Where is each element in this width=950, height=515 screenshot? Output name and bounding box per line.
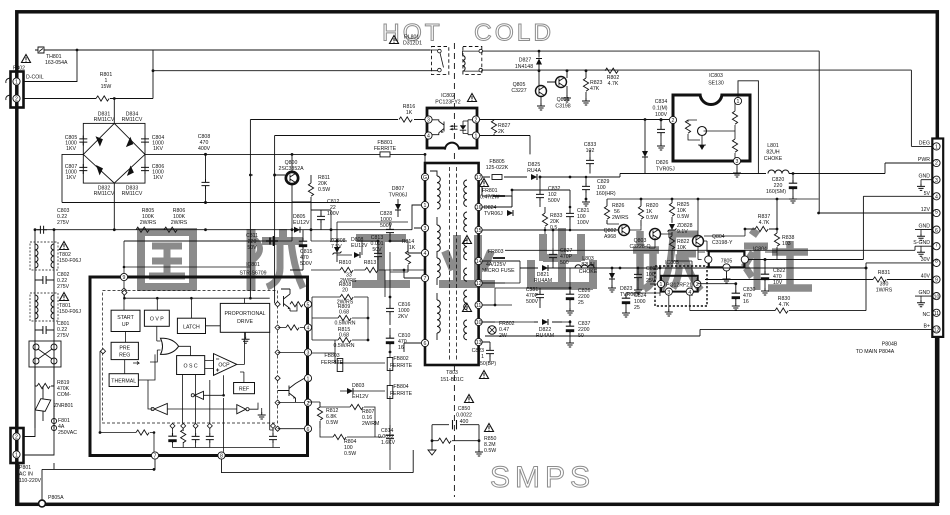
- svg-text:PRE: PRE: [119, 346, 130, 352]
- resistor R831: [873, 270, 893, 294]
- choke L803: [560, 256, 866, 275]
- svg-text:O V P: O V P: [150, 317, 164, 323]
- wire pin1 riser: [24, 50, 78, 82]
- svg-text:C834: C834: [655, 99, 668, 105]
- svg-text:1: 1: [660, 282, 663, 288]
- svg-text:16: 16: [398, 345, 404, 351]
- svg-text:160(HR): 160(HR): [596, 191, 616, 197]
- wire opto pin4 line: [275, 135, 425, 137]
- svg-text:6: 6: [935, 228, 938, 234]
- svg-text:14: 14: [476, 259, 482, 265]
- transformer T801 line filter: [30, 293, 81, 322]
- svg-text:RM11CV: RM11CV: [122, 191, 143, 197]
- svg-text:500V: 500V: [548, 198, 561, 204]
- capacitor C826: [566, 288, 591, 315]
- svg-text:1K: 1K: [406, 110, 413, 116]
- right area long wires: [485, 196, 933, 336]
- T803 pin 6: [421, 339, 428, 347]
- svg-text:FR801: FR801: [482, 188, 498, 194]
- capacitor C803: [37, 208, 70, 234]
- svg-text:FERRITE: FERRITE: [390, 363, 413, 369]
- svg-text:400V: 400V: [198, 146, 211, 152]
- svg-text:FERRITE: FERRITE: [374, 146, 397, 152]
- svg-text:2: 2: [15, 435, 18, 441]
- wire bridge input riser: [114, 71, 153, 124]
- svg-text:5: 5: [307, 302, 310, 308]
- svg-text:100V: 100V: [577, 220, 590, 226]
- node diamonds on dashed edge: [100, 290, 280, 431]
- svg-text:9: 9: [123, 275, 126, 281]
- internal bus and wires IC801: [124, 291, 273, 452]
- resistor R827: [491, 120, 510, 136]
- resistor R815: [312, 327, 368, 349]
- svg-text:9: 9: [935, 278, 938, 284]
- right thick bus bar: [935, 337, 940, 503]
- T803 pin 15: [475, 226, 482, 234]
- svg-text:275V: 275V: [57, 333, 70, 339]
- capacitor C814: [378, 425, 396, 450]
- svg-text:2KV: 2KV: [398, 314, 408, 320]
- svg-text:1.6KV: 1.6KV: [381, 440, 396, 446]
- watermark char SHE: [744, 230, 812, 290]
- resistor into pin4: [278, 325, 305, 330]
- IC803 box: [673, 73, 750, 161]
- svg-text:8: 8: [935, 259, 938, 265]
- T803 pin 1: [421, 201, 428, 209]
- svg-text:50(BP): 50(BP): [480, 361, 496, 367]
- svg-text:OCP: OCP: [218, 363, 230, 369]
- svg-text:CHOKE: CHOKE: [764, 156, 783, 162]
- svg-text:163-054A: 163-054A: [45, 60, 68, 66]
- svg-text:PWR: PWR: [918, 157, 930, 163]
- svg-text:500: 500: [560, 260, 569, 266]
- svg-text:102: 102: [586, 148, 595, 154]
- svg-text:1N4148: 1N4148: [515, 64, 533, 70]
- T803 pin 12: [475, 279, 482, 287]
- svg-text:RM11CV: RM11CV: [122, 117, 143, 123]
- svg-text:10V: 10V: [773, 280, 783, 286]
- svg-text:1: 1: [307, 376, 310, 382]
- diode D803: [347, 383, 369, 400]
- watermark char CHU: [531, 228, 593, 289]
- svg-text:400: 400: [460, 419, 469, 425]
- block PROPORTIONAL DRIVE: [220, 303, 269, 332]
- svg-text:7: 7: [154, 454, 157, 460]
- resistor R801: [96, 50, 153, 101]
- capacitor C816: [386, 297, 411, 325]
- svg-text:4.7K: 4.7K: [608, 81, 619, 87]
- resistor R810: [339, 260, 357, 284]
- capacitor C829: [582, 177, 616, 206]
- ground triangle bottom left: [428, 441, 436, 455]
- pin 8: [218, 452, 225, 460]
- pin 11 NC: [923, 309, 941, 318]
- diode D807: [389, 186, 408, 217]
- ferrite FB805: [482, 159, 527, 180]
- IC803 pin 2: [669, 116, 676, 124]
- diode D805: [293, 214, 310, 233]
- capacitor C831: [526, 287, 544, 308]
- ground bottom right: [475, 449, 483, 456]
- svg-text:3: 3: [424, 226, 427, 232]
- wires opto right: [480, 120, 670, 155]
- svg-text:FR803: FR803: [488, 249, 504, 255]
- capacitor C815: [290, 230, 313, 270]
- svg-text:P801: P801: [19, 465, 31, 471]
- pin 12 B+: [924, 323, 941, 333]
- resistor R806: [164, 208, 188, 232]
- IC802 pin 3: [425, 116, 432, 124]
- pin 1 DEG: [919, 140, 940, 150]
- svg-text:160(SM): 160(SM): [766, 189, 786, 195]
- svg-text:P805A: P805A: [48, 495, 64, 501]
- fuse F801: [51, 400, 77, 444]
- label P804B: [856, 342, 898, 356]
- wire second rail: [153, 70, 430, 72]
- wire PWR riser: [483, 70, 933, 173]
- svg-text:275V: 275V: [57, 284, 70, 290]
- svg-text:G: G: [423, 175, 427, 181]
- svg-text:150-F06J: 150-F06J: [59, 258, 81, 264]
- ferrite FB804: [387, 384, 412, 399]
- svg-text:C3198: C3198: [555, 104, 570, 110]
- capacitor C825: [634, 266, 659, 294]
- fuse FR803: [463, 236, 516, 275]
- svg-text:2: 2: [672, 118, 675, 124]
- main AC rail: [35, 229, 412, 231]
- block LATCH: [177, 318, 205, 333]
- resistor R807: [350, 404, 379, 427]
- svg-text:TVR05J: TVR05J: [656, 167, 675, 173]
- svg-text:30V: 30V: [921, 257, 931, 263]
- resistor R830: [690, 296, 866, 313]
- wire filter to P801: [24, 386, 55, 455]
- svg-text:250VAC: 250VAC: [58, 430, 77, 436]
- capacitor C812: [311, 199, 340, 230]
- svg-text:0.5W: 0.5W: [484, 448, 496, 454]
- ferrite FB801: [374, 140, 397, 157]
- wire pin2 internal: [278, 402, 305, 404]
- svg-text:4: 4: [935, 195, 938, 201]
- svg-text:TVR06J: TVR06J: [389, 193, 408, 199]
- svg-text:2: 2: [935, 160, 938, 166]
- resistor R805: [136, 208, 157, 232]
- svg-text:1: 1: [15, 453, 18, 459]
- pin 7 S-GND: [913, 240, 940, 256]
- svg-text:0.5W/RN: 0.5W/RN: [333, 343, 354, 349]
- svg-text:6: 6: [307, 427, 310, 433]
- svg-text:1: 1: [424, 203, 427, 209]
- svg-text:RU4A: RU4A: [527, 168, 541, 174]
- svg-text:3: 3: [935, 178, 938, 184]
- svg-text:C3227: C3227: [511, 88, 526, 94]
- capacitor C802: [35, 272, 70, 290]
- svg-text:NC: NC: [923, 312, 931, 318]
- capacitor C801: [35, 321, 70, 339]
- svg-text:FB802: FB802: [393, 356, 408, 362]
- svg-text:ZNR801: ZNR801: [54, 403, 73, 409]
- regulator IC805 dashed box: [650, 260, 707, 316]
- block OVP: [144, 310, 169, 326]
- resistor R838: [774, 228, 794, 252]
- optocoupler IC802: [427, 93, 477, 151]
- svg-text:CHOKE: CHOKE: [579, 269, 598, 275]
- svg-text:S-GND: S-GND: [913, 240, 930, 246]
- IC802 pin 2: [472, 116, 479, 124]
- svg-text:1: 1: [15, 80, 18, 86]
- resistor R802: [605, 68, 619, 87]
- svg-text:20: 20: [342, 288, 348, 294]
- svg-text:COLD: COLD: [474, 20, 554, 47]
- transistor Q804: [693, 234, 734, 247]
- capacitor C833: [584, 142, 597, 174]
- svg-text:D312D1: D312D1: [403, 41, 422, 47]
- svg-text:3: 3: [307, 351, 310, 357]
- svg-text:12: 12: [934, 328, 940, 334]
- wire top rail hot: [44, 49, 430, 51]
- svg-text:LATCH: LATCH: [183, 324, 200, 330]
- svg-text:47K: 47K: [590, 86, 600, 92]
- capacitor C810: [386, 328, 411, 352]
- svg-text:1KV: 1KV: [153, 175, 163, 181]
- svg-text:6: 6: [424, 341, 427, 347]
- capacitor C811: [246, 233, 278, 251]
- svg-text:12: 12: [476, 281, 482, 287]
- svg-text:REF: REF: [239, 387, 249, 393]
- degauss relay box: [29, 341, 61, 367]
- svg-text:RM11CV: RM11CV: [94, 117, 115, 123]
- warning triangle T803: [480, 371, 489, 379]
- svg-text:1W/RS: 1W/RS: [876, 288, 893, 294]
- svg-text:0.5W: 0.5W: [677, 214, 689, 220]
- T803 pin 14: [475, 257, 482, 265]
- node P805A: [39, 495, 65, 507]
- svg-text:PROPORTIONAL: PROPORTIONAL: [224, 311, 265, 317]
- svg-text:7.5V: 7.5V: [331, 244, 342, 250]
- resistor into pin5: [290, 302, 304, 311]
- ferrite FB803: [321, 353, 344, 372]
- svg-text:5: 5: [935, 209, 938, 215]
- diode D808: [351, 237, 368, 258]
- inverter left: [151, 403, 167, 414]
- transistor Q803: [629, 229, 660, 251]
- connector P802: [6, 66, 44, 108]
- pin 5 12V: [921, 207, 940, 217]
- svg-text:EU12V: EU12V: [351, 243, 368, 249]
- thermistor TH801: [35, 47, 68, 66]
- svg-text:UP: UP: [122, 322, 130, 328]
- IC803 pin 3: [733, 157, 740, 165]
- svg-text:D803: D803: [352, 383, 365, 389]
- svg-text:1KV: 1KV: [153, 146, 163, 152]
- ground under drive: [242, 336, 250, 343]
- svg-text:IC802: IC802: [441, 93, 455, 99]
- svg-text:40V: 40V: [921, 274, 931, 280]
- capacitor C828: [380, 211, 394, 241]
- svg-text:15: 15: [476, 228, 482, 234]
- capacitor C807: [65, 164, 88, 181]
- capacitor C850: [432, 395, 479, 430]
- svg-text:100V: 100V: [655, 112, 668, 118]
- svg-text:C850: C850: [458, 406, 471, 412]
- wire opto pin3 line: [250, 119, 424, 121]
- secondary mid wires: [482, 186, 512, 207]
- svg-text:1: 1: [737, 99, 740, 105]
- svg-text:O S C: O S C: [184, 364, 198, 370]
- capacitor C820: [766, 172, 797, 203]
- resistor R820: [638, 199, 658, 226]
- svg-text:2SC3852A: 2SC3852A: [278, 166, 304, 172]
- wire IC803 pin1 top: [738, 81, 758, 174]
- capacitor C813: [371, 235, 384, 260]
- svg-text:25: 25: [578, 300, 584, 306]
- svg-text:D827: D827: [519, 58, 532, 64]
- resistor R833: [542, 213, 562, 231]
- T803 pin 10: [475, 318, 482, 326]
- svg-text:2W/RS: 2W/RS: [171, 220, 188, 226]
- T803 pin 13: [475, 338, 482, 346]
- svg-text:A968: A968: [604, 234, 616, 240]
- svg-text:0.5W: 0.5W: [646, 215, 658, 221]
- capacitor C804: [141, 135, 164, 152]
- svg-text:4.7K: 4.7K: [779, 302, 790, 308]
- svg-text:C3228-O: C3228-O: [629, 244, 650, 250]
- diode D821: [520, 265, 560, 284]
- pin 1: [304, 375, 311, 383]
- svg-text:P802: P802: [13, 66, 25, 72]
- svg-text:500V: 500V: [526, 299, 539, 305]
- wire Q804 to R837: [698, 229, 777, 260]
- svg-text:500V: 500V: [300, 261, 313, 267]
- svg-text:12V: 12V: [921, 207, 931, 213]
- resistor R809: [312, 304, 368, 327]
- wire P801 down to bus: [19, 463, 54, 504]
- svg-text:11: 11: [934, 311, 939, 317]
- bottom caps row inside IC801: [168, 423, 280, 447]
- watermark char FANG: [251, 229, 303, 291]
- warning triangle RL801: [390, 36, 399, 44]
- ground near pin6: [258, 408, 266, 419]
- connecting wires center column: [250, 175, 424, 470]
- resistor R825: [669, 199, 689, 222]
- svg-text:1: 1: [481, 354, 484, 360]
- svg-text:82UH: 82UH: [766, 150, 780, 156]
- comparator OCP: [214, 354, 237, 376]
- svg-text:C3198-Y: C3198-Y: [712, 240, 733, 246]
- svg-text:L801: L801: [767, 143, 779, 149]
- wire bridge plus rail: [145, 153, 425, 155]
- T803 pin 16: [475, 203, 482, 211]
- T803 left pin wires: [393, 154, 425, 352]
- svg-text:TO MAIN P804A: TO MAIN P804A: [856, 349, 895, 355]
- wire pin9 to supply rail: [124, 241, 250, 273]
- svg-text:4: 4: [307, 326, 310, 332]
- svg-text:D826: D826: [656, 160, 669, 166]
- resistor R812: [317, 402, 338, 428]
- svg-text:FB803: FB803: [324, 353, 339, 359]
- svg-text:0.0022: 0.0022: [456, 413, 472, 419]
- feedback wires from opto into IC: [250, 120, 274, 304]
- capacitor C805: [65, 135, 88, 152]
- svg-text:R813: R813: [364, 260, 377, 266]
- svg-text:2W/RS: 2W/RS: [612, 215, 629, 221]
- svg-text:THERMAL: THERMAL: [111, 379, 136, 385]
- hot/cold dashed separator: [453, 43, 455, 497]
- wire DEG riser: [911, 145, 932, 147]
- svg-text:AC IN: AC IN: [19, 472, 33, 478]
- resistor R813: [364, 260, 378, 273]
- svg-text:3: 3: [736, 159, 739, 165]
- pin 9 40V: [921, 274, 940, 284]
- T803 pin 7: [421, 274, 428, 282]
- svg-text:82UH: 82UH: [581, 262, 595, 268]
- svg-text:IC803: IC803: [709, 73, 723, 79]
- IC801 label: [239, 262, 266, 277]
- svg-text:TVR06J: TVR06J: [484, 211, 503, 217]
- IC802 pin 1: [472, 132, 479, 140]
- resistor R808: [318, 282, 368, 306]
- capacitor C823: [472, 342, 497, 367]
- resistor R823: [582, 71, 603, 105]
- varistor ZNR801: [35, 393, 73, 417]
- svg-text:50V: 50V: [372, 247, 382, 253]
- secondary lower wires: [495, 230, 692, 322]
- svg-text:2W/RS: 2W/RS: [140, 220, 157, 226]
- capacitor C837: [566, 320, 591, 347]
- transistor Q806: [547, 71, 571, 110]
- svg-text:GND: GND: [918, 290, 930, 296]
- capacitor C824: [622, 293, 647, 317]
- svg-text:COM-: COM-: [57, 392, 71, 398]
- wire bridge minus: [62, 154, 380, 202]
- resistor R816: [399, 104, 415, 122]
- svg-text:IC804: IC804: [753, 247, 767, 253]
- wire bridge bottom riser: [113, 183, 115, 230]
- svg-text:D-COIL: D-COIL: [26, 75, 44, 81]
- svg-text:R810: R810: [339, 260, 352, 266]
- svg-text:7: 7: [424, 276, 427, 282]
- svg-text:10: 10: [934, 294, 940, 300]
- svg-text:2: 2: [475, 118, 478, 124]
- zener ZD828: [668, 223, 693, 235]
- svg-text:125-022K: 125-022K: [486, 165, 509, 171]
- pin 2 PWR: [918, 157, 940, 167]
- svg-text:17: 17: [476, 175, 482, 181]
- svg-text:4: 4: [427, 134, 430, 140]
- svg-text:IC805: IC805: [665, 260, 679, 266]
- IC801 box: [90, 277, 308, 456]
- svg-text:Q806: Q806: [557, 97, 570, 103]
- svg-text:2W/RM: 2W/RM: [362, 421, 379, 427]
- svg-text:EU12V: EU12V: [293, 220, 310, 226]
- svg-text:1KV: 1KV: [66, 175, 76, 181]
- svg-text:DEG: DEG: [919, 140, 930, 146]
- capacitor C822: [761, 258, 786, 295]
- connector P804B strip: [932, 139, 943, 337]
- transistor Q805: [511, 71, 546, 110]
- svg-text:2K: 2K: [498, 129, 505, 135]
- block START UP: [111, 310, 140, 331]
- pin 7: [151, 452, 158, 460]
- svg-text:0.5W: 0.5W: [344, 451, 356, 457]
- T803 pin 4: [421, 249, 428, 257]
- ferrite FB802: [387, 356, 412, 371]
- watermark char YE: [439, 235, 495, 284]
- svg-text:1: 1: [935, 144, 938, 150]
- svg-text:MICRO FUSE: MICRO FUSE: [482, 268, 515, 274]
- transistor Q800: [273, 154, 304, 202]
- fuse FR802: [463, 304, 515, 340]
